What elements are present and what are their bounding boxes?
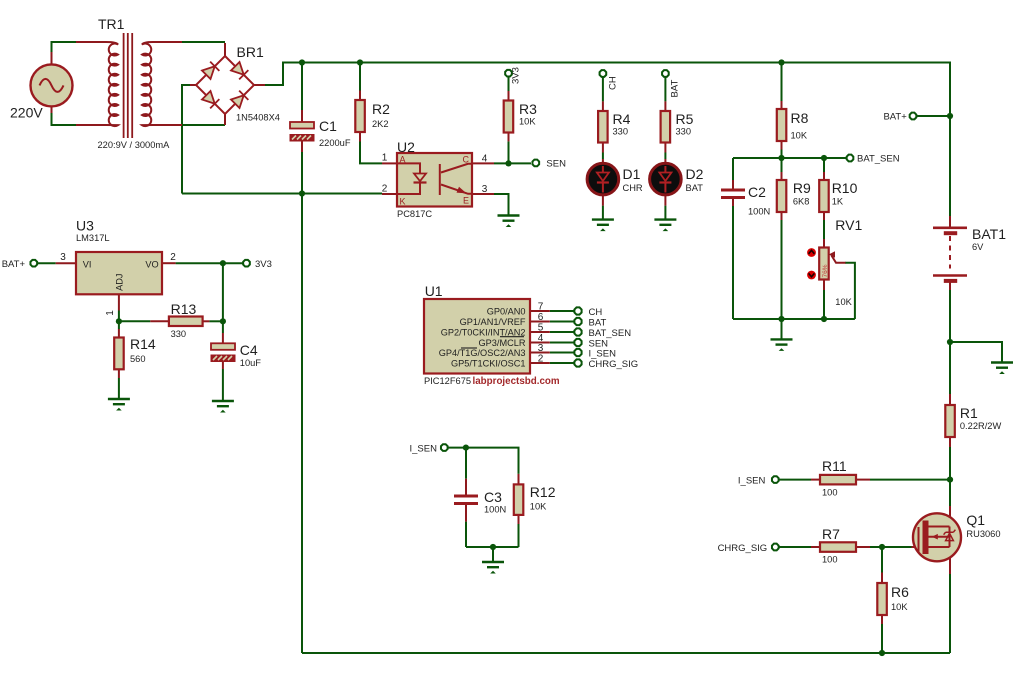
svg-text:R14: R14: [130, 336, 156, 352]
svg-text:100N: 100N: [748, 207, 770, 217]
junction node 4: [947, 113, 953, 119]
svg-text:R13: R13: [171, 301, 197, 317]
pin R13 left: [150, 320, 169, 322]
svg-text:CHRG_SIG: CHRG_SIG: [718, 543, 768, 554]
wire secondary bottom to BR1: [182, 124, 225, 126]
pin U3 3 VI: [56, 262, 76, 264]
junction node 19: [821, 316, 827, 322]
pin R4 bottom: [602, 143, 604, 153]
svg-text:R7: R7: [822, 526, 840, 542]
pin U1 7: [530, 310, 550, 312]
terminal BAT+ (battery): [910, 113, 917, 120]
bridge rectifier BR1: [196, 56, 254, 114]
wire U1 pin row 3 green part: [550, 352, 574, 354]
svg-text:220:9V / 3000mA: 220:9V / 3000mA: [98, 140, 171, 150]
ground (battery): [991, 363, 1013, 375]
svg-text:GP5/T1CKI/OSC1: GP5/T1CKI/OSC1: [451, 358, 526, 368]
svg-text:3: 3: [60, 252, 66, 263]
pin R2 bottom: [359, 132, 361, 142]
svg-text:CH: CH: [607, 76, 618, 90]
wire C2 top: [732, 158, 734, 180]
wire R2 bottom to U2 A: [360, 142, 382, 164]
pin Q1 gate: [912, 546, 919, 548]
resistor R7: [820, 542, 856, 552]
wire bottom GND rail: [302, 652, 950, 654]
wire R14 to ground: [118, 378, 120, 399]
ground (C3 R12): [482, 562, 504, 574]
svg-text:TR1: TR1: [98, 16, 125, 32]
wire BAT terminal to R5: [664, 78, 666, 102]
wire C1 top: [301, 63, 303, 111]
svg-text:76%: 76%: [822, 264, 829, 277]
pin C2 top: [732, 180, 734, 189]
junction node 7: [778, 155, 784, 161]
wire C2 bottom: [732, 206, 734, 319]
wire RV1 wiper return: [845, 263, 855, 319]
pin C1 bottom: [301, 141, 303, 152]
capacitor C3: [454, 496, 478, 504]
pin R4 top: [602, 101, 604, 111]
svg-text:GP3/MCLR: GP3/MCLR: [479, 338, 526, 348]
microcontroller U1 PIC12F675 body: [424, 299, 530, 374]
svg-text:GP4/T1G/OSC2/AN3: GP4/T1G/OSC2/AN3: [439, 348, 526, 358]
pin R7 right: [856, 546, 870, 548]
junction node 11: [220, 318, 226, 324]
wire R3 bottom to SEN node: [508, 141, 510, 163]
svg-text:220V: 220V: [10, 105, 43, 121]
svg-text:C3: C3: [484, 489, 502, 505]
svg-text:2200uF: 2200uF: [319, 138, 351, 148]
wire BR1 + output to top rail: [265, 63, 283, 86]
svg-text:U2: U2: [397, 139, 415, 155]
svg-text:PC817C: PC817C: [397, 209, 432, 219]
wire RV1 bottom: [823, 290, 825, 319]
terminal CHRG_SIG (U1): [574, 359, 581, 366]
svg-text:7: 7: [538, 302, 544, 313]
svg-text:6V: 6V: [972, 242, 984, 252]
ground (U2 E): [498, 216, 520, 228]
pin D2 anode: [664, 159, 666, 164]
pin R10 bottom: [823, 212, 825, 220]
pin TR1 primary top lead: [76, 41, 106, 43]
junction node 16: [879, 544, 885, 550]
svg-text:U1: U1: [425, 283, 443, 299]
wire top rail to R8: [781, 63, 783, 102]
wire battery ground branch: [950, 342, 1002, 363]
wire C3 R12 bottom rail: [466, 546, 519, 548]
pin C3 top: [465, 479, 467, 495]
terminal BAT+ (U3): [30, 260, 37, 267]
resistor R5: [661, 111, 671, 143]
wire BR1 - output down: [182, 85, 190, 194]
wire gate node to R6: [881, 547, 883, 573]
svg-text:330: 330: [676, 127, 692, 137]
pin R2 top: [359, 91, 361, 101]
svg-text:330: 330: [613, 127, 629, 137]
wire CHRG_SIG terminal to R7: [779, 546, 811, 548]
resistor R9: [777, 180, 787, 212]
AC source 220V: [31, 64, 73, 106]
pin BR1 top: [224, 43, 226, 56]
svg-text:100N: 100N: [484, 505, 506, 515]
svg-text:RU3060: RU3060: [966, 529, 1000, 539]
junction node 9: [116, 318, 122, 324]
svg-text:I_SEN: I_SEN: [738, 476, 766, 487]
svg-text:VI: VI: [83, 260, 92, 270]
svg-text:BAT: BAT: [686, 183, 704, 193]
pin U1 5: [530, 331, 550, 333]
svg-text:GP0/AN0: GP0/AN0: [487, 306, 526, 316]
capacitor C4: [211, 343, 235, 361]
terminal BAT (R5): [662, 70, 669, 77]
pin U3 1 ADJ: [118, 294, 120, 310]
svg-text:1K: 1K: [832, 197, 844, 207]
regulator U3 LM317L body: [76, 252, 162, 294]
svg-text:R2: R2: [372, 101, 390, 117]
svg-text:0.22R/2W: 0.22R/2W: [960, 421, 1002, 431]
resistor R12: [514, 484, 524, 515]
junction node 8: [821, 155, 827, 161]
svg-text:C: C: [463, 155, 470, 165]
pin AC source bottom: [51, 107, 53, 114]
resistor R3: [504, 101, 514, 133]
svg-text:R9: R9: [793, 180, 811, 196]
svg-text:6: 6: [538, 312, 544, 323]
op-amp U2 optocoupler body: [397, 153, 472, 207]
pin U1 3: [530, 352, 550, 354]
pin R8 bottom: [781, 141, 783, 150]
wire ADJ node to R14: [118, 321, 120, 329]
pin R6 top: [881, 573, 883, 584]
terminal BAT (U1): [574, 318, 581, 325]
junction node 3: [778, 59, 784, 65]
svg-text:560: 560: [130, 354, 146, 364]
svg-text:U3: U3: [76, 218, 94, 234]
U1 MCLR overline: [500, 336, 524, 338]
svg-text:BAT1: BAT1: [972, 226, 1006, 242]
svg-text:3: 3: [538, 343, 544, 354]
terminal I_SEN (C3): [441, 444, 448, 451]
junction node 17: [879, 650, 885, 656]
wire D1 to ground: [602, 206, 604, 220]
wire R12 bottom: [518, 524, 520, 547]
LED D1: [587, 163, 619, 195]
svg-text:GP2/T0CKI/INT/AN2: GP2/T0CKI/INT/AN2: [441, 327, 526, 337]
wire I_SEN node row: [448, 448, 519, 474]
wire R4 to D1: [602, 153, 604, 160]
terminal I_SEN (U1): [574, 349, 581, 356]
ground (D1): [592, 220, 614, 232]
ground (C2 R9): [771, 339, 793, 351]
junction node 2: [357, 59, 363, 65]
svg-text:VO: VO: [145, 260, 158, 270]
pin TR1 primary bottom lead: [76, 124, 106, 126]
pin R12 bottom: [518, 515, 520, 524]
wire U1 pin row 6 green part: [550, 321, 574, 323]
U1 T1G overline: [461, 347, 477, 349]
wire R9 bottom: [781, 220, 783, 319]
svg-text:A: A: [400, 155, 406, 165]
svg-text:3V3: 3V3: [255, 259, 272, 270]
pin R1 top: [949, 394, 951, 405]
svg-text:R11: R11: [822, 458, 847, 474]
wire C3 bottom: [465, 522, 467, 547]
pin R7 left: [811, 546, 820, 548]
wire U3 VO to 3V3 terminal: [176, 262, 243, 264]
RV1 adjust buttons: [807, 248, 816, 279]
pin R3 top: [508, 91, 510, 101]
pin C4 top: [222, 333, 224, 343]
svg-text:Q1: Q1: [966, 512, 985, 528]
svg-text:3V3: 3V3: [511, 67, 522, 84]
wire U3 ADJ pin: [118, 311, 120, 322]
resistor R10: [819, 180, 829, 212]
pin R5 bottom: [664, 143, 666, 153]
LED D2: [650, 163, 682, 195]
svg-text:LM317L: LM317L: [76, 233, 110, 243]
svg-text:C1: C1: [319, 118, 337, 134]
capacitor C2: [721, 190, 745, 198]
pin Q1 drain: [949, 506, 951, 527]
svg-text:I_SEN: I_SEN: [589, 348, 617, 359]
resistor R6: [877, 583, 887, 615]
pin RV1 bottom: [823, 280, 825, 291]
wire C3 ground stub: [492, 547, 494, 562]
svg-text:ADJ: ADJ: [115, 274, 125, 291]
terminal 3V3 (R3): [505, 70, 512, 77]
pin R6 bottom: [881, 615, 883, 624]
svg-text:10uF: 10uF: [240, 358, 262, 368]
pin AC source top: [51, 52, 53, 65]
wire R9 top: [781, 158, 783, 172]
svg-text:10K: 10K: [891, 602, 908, 612]
pin C3 bottom: [465, 505, 467, 522]
wire R1 to Q1 drain node: [949, 447, 951, 506]
pin BR1 bottom: [224, 114, 226, 125]
junction node 14: [947, 339, 953, 345]
wire R13 to C4 node: [209, 320, 223, 322]
wire CH terminal to R4: [602, 78, 604, 102]
svg-text:BAT_SEN: BAT_SEN: [857, 154, 900, 165]
pin BR1 right: [254, 84, 265, 86]
wire U1 pin row 4 green part: [550, 342, 574, 344]
wire BAT_SEN row: [733, 157, 846, 159]
junction node 5: [505, 160, 511, 166]
svg-text:10K: 10K: [530, 502, 547, 512]
svg-text:330: 330: [171, 329, 187, 339]
pin R9 bottom: [781, 212, 783, 220]
svg-text:R3: R3: [519, 101, 537, 117]
pin D1 cathode: [602, 195, 604, 206]
pin R11 right: [856, 479, 870, 481]
svg-text:SEN: SEN: [546, 159, 566, 170]
svg-text:CH: CH: [589, 307, 603, 318]
pin R13 right: [203, 320, 210, 322]
pin R1 bottom: [949, 437, 951, 447]
svg-text:D2: D2: [686, 166, 704, 182]
pin R12 top: [518, 474, 520, 485]
resistor R1: [945, 405, 955, 437]
wire D2 to ground: [664, 206, 666, 220]
terminal I_SEN (R11): [772, 476, 779, 483]
wire U1 pin row 2 green part: [550, 362, 574, 364]
wire ADJ node to R13: [119, 320, 150, 322]
terminal BAT_SEN (U1): [574, 328, 581, 335]
wire R10 to RV1: [823, 220, 825, 239]
svg-text:CHRG_SIG: CHRG_SIG: [589, 359, 639, 370]
resistor R14: [114, 338, 124, 370]
wire left long vertical GND: [301, 194, 303, 654]
svg-text:C4: C4: [240, 342, 258, 358]
pin RV1 top: [823, 239, 825, 248]
junction node 10: [220, 260, 226, 266]
wire BAT+ terminal to battery: [917, 115, 950, 117]
transformer TR1: [106, 33, 153, 138]
pin R5 top: [664, 101, 666, 111]
svg-text:5: 5: [538, 323, 544, 334]
svg-text:BAT+: BAT+: [2, 259, 26, 270]
pin C2 bottom: [732, 197, 734, 207]
wire R6 to bottom rail: [881, 624, 883, 653]
terminal CH (U1): [574, 307, 581, 314]
svg-text:10K: 10K: [519, 117, 536, 127]
resistor R2: [355, 100, 365, 132]
wire R9 ground stub: [781, 319, 783, 339]
wire C1 bottom: [301, 152, 303, 194]
wire 3V3 to R3: [508, 77, 510, 92]
pin D1 anode: [602, 159, 604, 164]
junction node 18: [778, 316, 784, 322]
wire AC source bottom lead: [52, 113, 77, 125]
wire C2 R9 RV1 bottom rail: [733, 318, 855, 320]
junction node 6: [299, 190, 305, 196]
pin U2 4 C: [472, 162, 494, 164]
pin U1 2: [530, 362, 550, 364]
wire I_SEN terminal to R11: [779, 479, 811, 481]
pin D2 cathode: [664, 195, 666, 206]
pin TR1 secondary bottom lead: [153, 124, 182, 126]
svg-text:4: 4: [482, 154, 488, 165]
junction node 12: [463, 445, 469, 451]
wire U2 C to SEN terminal: [494, 162, 531, 164]
terminal BAT_SEN: [847, 155, 854, 162]
svg-text:labprojectsbd.com: labprojectsbd.com: [473, 376, 560, 387]
wire ground mid rail to U2 K: [182, 193, 382, 195]
pin R9 top: [781, 172, 783, 180]
pin R3 bottom: [508, 132, 510, 141]
terminal CH: [600, 70, 607, 77]
wire U1 pin row 7 green part: [550, 310, 574, 312]
svg-text:BR1: BR1: [237, 44, 264, 60]
svg-text:D1: D1: [623, 166, 641, 182]
svg-text:BAT_SEN: BAT_SEN: [589, 328, 632, 339]
svg-text:100: 100: [822, 488, 838, 498]
wire top rail VS net: [282, 63, 950, 117]
terminal 3V3 (U3 out): [243, 260, 250, 267]
terminal CHRG_SIG: [772, 544, 779, 551]
svg-text:3: 3: [482, 184, 488, 195]
pin U2 3 E: [472, 193, 494, 195]
svg-text:10K: 10K: [835, 297, 852, 307]
wire R10 top: [823, 158, 825, 172]
svg-text:R12: R12: [530, 484, 556, 500]
wire R5 to D2: [664, 153, 666, 160]
svg-text:R6: R6: [891, 584, 909, 600]
pin TR1 secondary top lead: [153, 41, 182, 43]
svg-text:BAT: BAT: [589, 317, 607, 328]
wire Q1 source to bottom rail: [949, 574, 951, 653]
svg-text:R4: R4: [613, 111, 631, 127]
wire R8 bottom to BAT_SEN node: [781, 150, 783, 159]
wire battery to R1: [949, 342, 951, 394]
wire BAT+ to U3 VI: [38, 262, 56, 264]
wire U1 pin row 5 green part: [550, 331, 574, 333]
svg-text:1N5408X4: 1N5408X4: [236, 113, 280, 123]
svg-text:R10: R10: [832, 180, 858, 196]
pin U3 2 VO: [162, 262, 176, 264]
wire R11 to drain node: [870, 479, 950, 481]
wire battery top: [949, 116, 951, 216]
pin U2 2 K: [382, 193, 397, 195]
svg-text:I_SEN: I_SEN: [410, 443, 438, 454]
ground (C4): [212, 401, 234, 413]
wire C4 to ground: [222, 369, 224, 401]
pin Q1 source: [949, 547, 951, 574]
pin BAT1 bottom: [949, 281, 951, 291]
svg-text:2: 2: [538, 354, 544, 365]
svg-text:K: K: [400, 197, 406, 207]
pin BR1 left: [190, 84, 197, 86]
wire battery bottom to GND branch: [949, 290, 951, 342]
resistor R8: [777, 109, 787, 141]
pin R10 top: [823, 172, 825, 180]
pin BAT1 top: [949, 216, 951, 227]
ground (D2): [654, 220, 676, 232]
svg-text:E: E: [463, 196, 469, 206]
svg-text:100: 100: [822, 555, 838, 565]
svg-text:R1: R1: [960, 405, 978, 421]
potentiometer RV1: [819, 248, 845, 280]
resistor R13: [169, 317, 203, 327]
resistor R11: [820, 475, 856, 485]
svg-text:1: 1: [105, 310, 116, 316]
svg-text:R8: R8: [791, 110, 809, 126]
svg-text:6K8: 6K8: [793, 197, 810, 207]
wire R7 to Q1 gate: [870, 546, 912, 548]
wire R2 top: [359, 63, 361, 91]
resistor R4: [598, 111, 608, 143]
wire U2 E to ground: [494, 194, 509, 216]
battery BAT1: [933, 228, 967, 281]
wire AC source top lead: [52, 42, 77, 52]
svg-text:2: 2: [170, 252, 176, 263]
svg-text:BAT: BAT: [670, 80, 681, 98]
junction node 13: [490, 544, 496, 550]
capacitor C1: [290, 122, 314, 141]
svg-text:10K: 10K: [791, 131, 808, 141]
pin R14 bottom: [118, 369, 120, 378]
svg-text:C2: C2: [748, 184, 766, 200]
wire C3 top: [465, 448, 467, 479]
svg-text:1: 1: [382, 153, 388, 164]
wire secondary top to BR1: [182, 41, 225, 43]
pin U1 6: [530, 321, 550, 323]
pin R14 top: [118, 329, 120, 338]
ground (R14): [108, 399, 130, 411]
svg-text:PIC12F675: PIC12F675: [424, 376, 471, 386]
pin U1 4: [530, 342, 550, 344]
wire 3V3 node down to C4: [222, 263, 224, 333]
